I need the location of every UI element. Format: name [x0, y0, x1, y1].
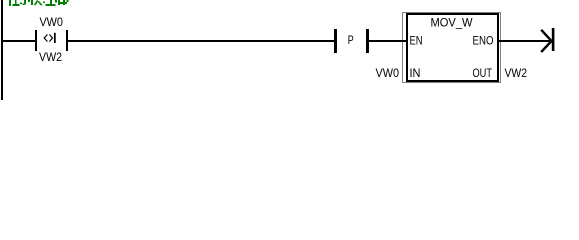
compare contact right bar [66, 30, 68, 51]
wire: P contact to MOV_W box EN input [369, 40, 406, 42]
svg-text:VW0: VW0 [39, 15, 63, 29]
svg-text:VW2: VW2 [39, 50, 62, 64]
svg-text:MOV_W: MOV_W [431, 15, 473, 29]
wire: ENO output to continuation arrow [499, 40, 551, 42]
comment char 4 fragments [43, 1, 45, 3]
compare contact left bar [35, 30, 37, 51]
P contact right bar [366, 29, 369, 53]
continuation arrowhead [541, 30, 551, 52]
continuation end bar [552, 28, 555, 51]
selection marquee (dotted) around MOV_W box [403, 13, 501, 83]
network comment (green, clipped at top): char 1 fragments [9, 0, 33, 6]
svg-text:VW2: VW2 [505, 66, 528, 80]
comment char 5 fragments [55, 0, 57, 3]
svg-text:ENO: ENO [473, 33, 494, 47]
wire: compare contact to P contact [68, 40, 334, 42]
compare contact operator "<>I" [44, 35, 52, 42]
svg-text:OUT: OUT [473, 66, 493, 80]
svg-text:EN: EN [410, 33, 423, 47]
comment char 2 fragments [20, 2, 22, 4]
wire: rail to compare contact [3, 40, 35, 42]
svg-text:IN: IN [410, 66, 421, 80]
P contact left bar [334, 29, 337, 53]
MOV_W box border [406, 13, 499, 82]
left power rail [1, 0, 3, 100]
comment char 3 fragments [31, 0, 33, 5]
svg-text:VW0: VW0 [376, 66, 400, 80]
svg-text:P: P [348, 33, 354, 47]
